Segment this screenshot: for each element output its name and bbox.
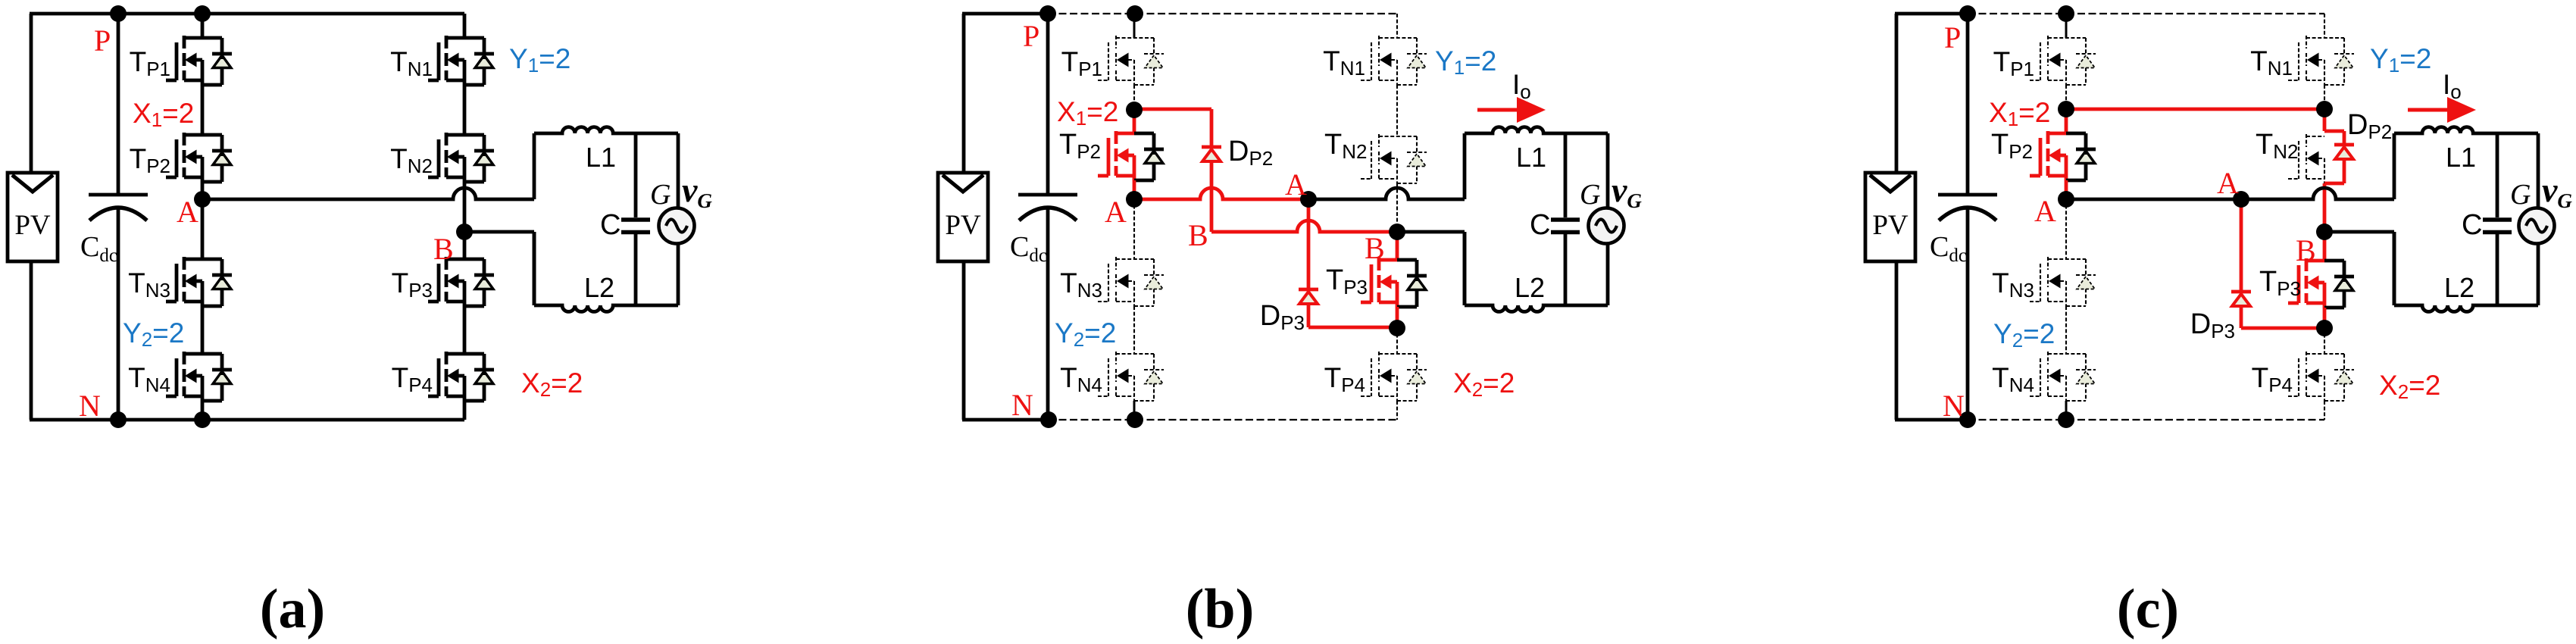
svg-text:TP1: TP1 — [1993, 46, 2034, 80]
svg-text:vG: vG — [1612, 170, 1642, 212]
svg-text:TP4: TP4 — [1324, 362, 1365, 396]
svg-text:(b): (b) — [1186, 578, 1254, 640]
svg-text:Y2=2: Y2=2 — [1055, 317, 1116, 351]
svg-text:X1=2: X1=2 — [1057, 96, 1118, 130]
svg-text:G: G — [1580, 179, 1600, 211]
svg-text:A: A — [1105, 195, 1127, 229]
svg-text:TP3: TP3 — [1326, 264, 1368, 299]
svg-text:X2=2: X2=2 — [1453, 367, 1515, 401]
svg-text:B: B — [1188, 218, 1208, 252]
svg-text:TN2: TN2 — [390, 143, 433, 177]
svg-text:L2: L2 — [584, 272, 614, 303]
svg-text:TP2: TP2 — [1991, 129, 2033, 163]
svg-text:TN1: TN1 — [1323, 45, 1365, 80]
svg-text:vG: vG — [682, 170, 712, 212]
svg-text:A: A — [177, 195, 199, 229]
svg-text:L2: L2 — [1515, 272, 1545, 303]
svg-text:PV: PV — [14, 210, 51, 241]
svg-text:N: N — [79, 389, 101, 423]
svg-text:TP2: TP2 — [130, 143, 170, 177]
svg-text:P: P — [94, 23, 111, 58]
svg-text:(c): (c) — [2117, 578, 2179, 640]
svg-text:TP4: TP4 — [2252, 362, 2293, 396]
svg-text:TN3: TN3 — [1060, 267, 1102, 302]
svg-text:Y1=2: Y1=2 — [2370, 43, 2431, 77]
svg-text:TN4: TN4 — [128, 362, 170, 396]
svg-text:TP1: TP1 — [130, 46, 170, 80]
svg-text:G: G — [2510, 179, 2531, 211]
svg-text:C: C — [2462, 209, 2482, 241]
svg-text:Cdc: Cdc — [80, 231, 117, 266]
svg-text:X2=2: X2=2 — [521, 367, 583, 401]
svg-text:B: B — [2296, 233, 2316, 267]
svg-text:Y1=2: Y1=2 — [1435, 45, 1496, 79]
svg-text:L1: L1 — [2446, 142, 2476, 173]
svg-text:A: A — [2217, 166, 2239, 200]
svg-text:TN2: TN2 — [1324, 129, 1367, 163]
svg-text:TN4: TN4 — [1060, 362, 1102, 396]
svg-text:vG: vG — [2542, 170, 2572, 212]
svg-text:N: N — [1943, 389, 1965, 423]
svg-text:TN1: TN1 — [390, 46, 433, 80]
svg-text:DP3: DP3 — [2190, 308, 2235, 342]
svg-text:B: B — [433, 232, 454, 266]
svg-text:A: A — [2034, 194, 2056, 228]
svg-text:X1=2: X1=2 — [1989, 97, 2050, 130]
svg-text:TP2: TP2 — [1059, 129, 1101, 163]
svg-text:TP3: TP3 — [2259, 266, 2301, 300]
svg-text:X1=2: X1=2 — [133, 98, 194, 131]
svg-text:Io: Io — [2443, 69, 2462, 103]
svg-text:DP2: DP2 — [1228, 136, 1273, 170]
svg-text:C: C — [1530, 209, 1550, 241]
svg-text:L2: L2 — [2444, 272, 2474, 303]
svg-text:DP2: DP2 — [2347, 109, 2392, 143]
svg-text:PV: PV — [945, 210, 981, 241]
svg-text:Y1=2: Y1=2 — [509, 43, 571, 77]
svg-text:PV: PV — [1872, 210, 1909, 241]
svg-text:G: G — [650, 179, 671, 211]
svg-text:TN4: TN4 — [1992, 362, 2034, 396]
svg-text:(a): (a) — [260, 578, 325, 640]
svg-text:Y2=2: Y2=2 — [123, 317, 184, 351]
svg-text:TP4: TP4 — [392, 362, 433, 396]
svg-text:B: B — [1365, 231, 1385, 265]
svg-text:TN1: TN1 — [2250, 45, 2293, 80]
svg-text:TN3: TN3 — [1992, 267, 2034, 302]
svg-text:P: P — [1944, 20, 1961, 55]
svg-text:Cdc: Cdc — [1010, 231, 1047, 266]
svg-text:TN3: TN3 — [128, 267, 170, 302]
svg-text:TN2: TN2 — [2256, 129, 2298, 163]
svg-text:A: A — [1285, 167, 1307, 202]
svg-text:Y2=2: Y2=2 — [1993, 318, 2055, 352]
svg-text:X2=2: X2=2 — [2379, 370, 2440, 403]
svg-text:L1: L1 — [586, 142, 616, 173]
svg-text:L1: L1 — [1516, 142, 1546, 173]
svg-text:C: C — [600, 209, 621, 241]
svg-text:N: N — [1011, 388, 1033, 422]
svg-text:TP3: TP3 — [392, 267, 433, 302]
svg-text:Io: Io — [1512, 69, 1531, 103]
svg-text:P: P — [1023, 19, 1039, 53]
svg-text:TP1: TP1 — [1061, 46, 1102, 80]
svg-text:Cdc: Cdc — [1930, 231, 1967, 266]
